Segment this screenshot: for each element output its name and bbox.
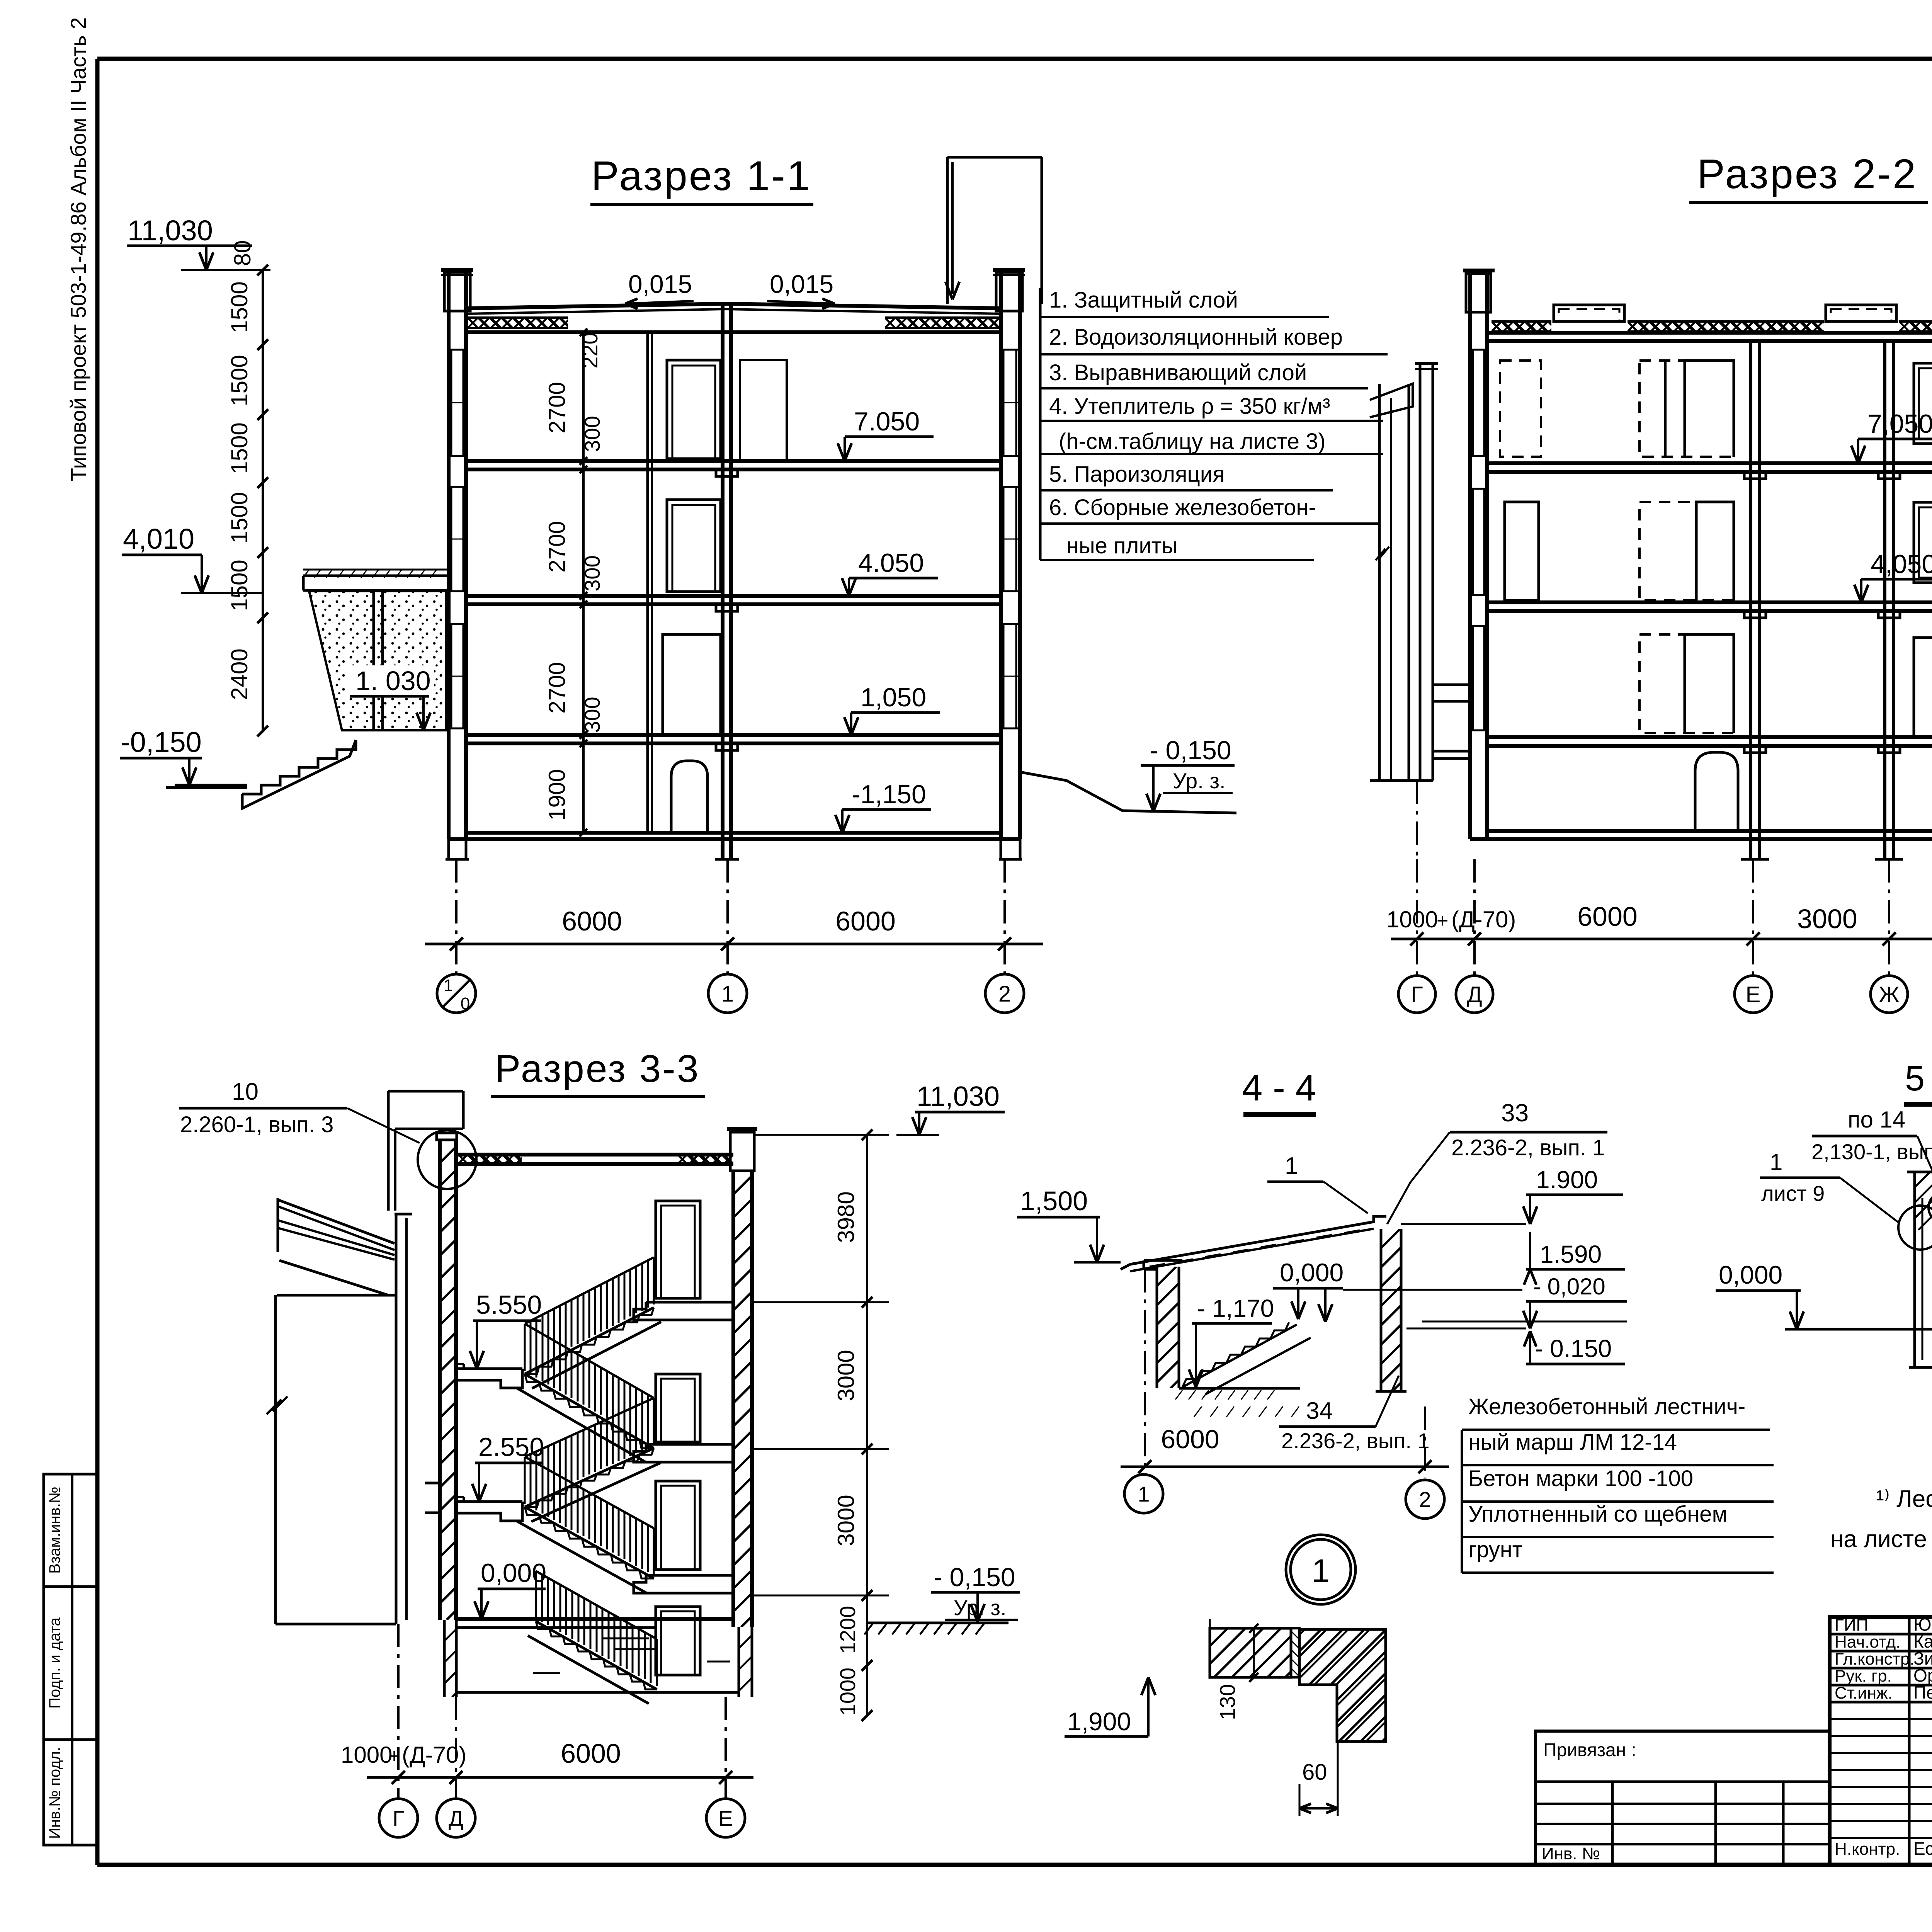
stair flight F3 upper	[525, 1308, 654, 1374]
svg-text:6. Сборные железобетон-: 6. Сборные железобетон-	[1049, 495, 1316, 520]
stair flight F2a	[525, 1448, 654, 1507]
parapet left 1-1	[444, 272, 470, 311]
building 1-1 right wall axis 2	[999, 272, 1003, 839]
sidebar table (Взам.инв.№ / Подп. и дата / Инв.№ подл.)	[44, 1474, 97, 1845]
svg-text:4,050: 4,050	[1871, 549, 1932, 579]
title block (stamp)	[1830, 1617, 1932, 1865]
svg-text:60: 60	[1302, 1760, 1327, 1785]
svg-text:-0,150: -0,150	[121, 726, 202, 758]
svg-text:300: 300	[580, 416, 604, 452]
bottom slab 1-1	[466, 831, 1001, 835]
svg-text:- 0,150: - 0,150	[1150, 736, 1231, 765]
svg-text:1: 1	[444, 976, 453, 995]
svg-text:Г: Г	[1411, 982, 1423, 1007]
svg-text:Ур. з.: Ур. з.	[1173, 769, 1226, 793]
svg-text:0,015: 0,015	[770, 270, 833, 298]
column capitals 2-2	[1744, 472, 1766, 479]
svg-text:Инв.№ подл.: Инв.№ подл.	[46, 1747, 63, 1839]
svg-text:6000: 6000	[1577, 901, 1638, 932]
building 2-2 left wall axis D	[1468, 274, 1472, 839]
svg-text:Взам.инв.№: Взам.инв.№	[46, 1486, 63, 1574]
svg-text:11,030: 11,030	[128, 214, 213, 247]
svg-text:1. 030: 1. 030	[355, 666, 431, 696]
svg-text:Есина: Есина	[1913, 1838, 1932, 1859]
lower canopy left 3-3	[425, 1482, 440, 1485]
svg-text:5 - 5: 5 - 5	[1905, 1059, 1932, 1098]
svg-text:1500: 1500	[226, 560, 252, 611]
svg-text:- 0,150: - 0,150	[934, 1563, 1015, 1592]
5-5 wall	[1913, 1172, 1916, 1367]
porch canopy slab 1-1	[303, 575, 450, 577]
svg-text:¹⁾ Лестничный марш ЛМ 12-1: ¹⁾ Лестничный марш ЛМ 12-14 учтен в спец…	[1876, 1486, 1932, 1512]
svg-text:лист 9: лист 9	[1761, 1181, 1825, 1206]
porch steps	[242, 740, 356, 794]
svg-text:1000: 1000	[341, 1742, 392, 1768]
grid bubbles 2-2	[1398, 976, 1435, 1013]
svg-text:по 14: по 14	[1848, 1107, 1905, 1133]
svg-text:1000: 1000	[1386, 906, 1438, 932]
svg-text:2: 2	[998, 981, 1011, 1007]
svg-text:3000: 3000	[833, 1350, 859, 1401]
svg-text:1,900: 1,900	[1067, 1707, 1131, 1736]
svg-text:1500: 1500	[226, 281, 252, 333]
svg-text:34: 34	[1306, 1398, 1333, 1424]
svg-text:2: 2	[1419, 1487, 1431, 1512]
roof slab 3-3	[456, 1153, 733, 1156]
ramp stair 4-4	[1182, 1322, 1289, 1387]
basement door rounded 1-1	[671, 761, 707, 833]
svg-text:Подп. и дата: Подп. и дата	[46, 1617, 63, 1708]
detail circle 10	[418, 1130, 476, 1189]
svg-text:Разрез 1-1: Разрез 1-1	[591, 152, 811, 199]
svg-text:1,050: 1,050	[861, 683, 926, 712]
grid bubbles 3-3	[379, 1799, 418, 1837]
svg-text:6000: 6000	[835, 906, 896, 936]
svg-text:1.590: 1.590	[1540, 1240, 1602, 1268]
slab stubs between G and D	[1433, 684, 1470, 686]
svg-text:1. Защитный слой: 1. Защитный слой	[1049, 287, 1238, 313]
svg-text:300: 300	[580, 697, 604, 733]
svg-text:7,050: 7,050	[1867, 409, 1932, 439]
svg-text:3000: 3000	[1797, 904, 1857, 934]
svg-text:1: 1	[721, 981, 734, 1007]
break mark annexe	[1376, 547, 1389, 560]
svg-text:4.050: 4.050	[858, 548, 924, 578]
rooftop shaft above 1-1	[946, 157, 949, 304]
parapet cap 3-3 left	[437, 1133, 457, 1140]
svg-text:ный марш ЛМ 12-14: ный марш ЛМ 12-14	[1468, 1430, 1677, 1455]
floor slabs 2-2	[1487, 461, 1932, 465]
bottom dim 3-3	[367, 1776, 753, 1779]
axis lines 2-2	[1416, 859, 1418, 976]
svg-text:300: 300	[580, 555, 604, 591]
svg-text:Разрез 3-3: Разрез 3-3	[495, 1047, 700, 1090]
svg-text:0: 0	[461, 994, 470, 1013]
ramp roof slope 4-4	[1121, 1216, 1386, 1269]
windows in outer walls 1-1	[451, 350, 452, 456]
svg-text:Е: Е	[718, 1806, 733, 1830]
svg-text:- 1,170: - 1,170	[1197, 1294, 1274, 1322]
tall door right 2-2	[1914, 638, 1932, 737]
svg-text:3. Выравнивающий слой: 3. Выравнивающий слой	[1049, 360, 1307, 385]
sheet frame border	[97, 57, 1932, 61]
column capitals 1-1	[716, 469, 738, 476]
entry canopy 3-3	[277, 1198, 279, 1252]
svg-text:2,130-1, вып. 11: 2,130-1, вып. 11	[1811, 1139, 1932, 1164]
annexe building 3-3	[274, 1295, 277, 1624]
break mark annexe 3-3	[267, 1396, 287, 1414]
svg-text:2400: 2400	[226, 648, 252, 700]
svg-text:Гл.констр.: Гл.констр.	[1835, 1650, 1915, 1668]
svg-text:Д: Д	[449, 1806, 463, 1830]
floor 0.000 3-3	[456, 1617, 733, 1621]
roof curbs 2-2	[1554, 305, 1624, 321]
svg-text:2700: 2700	[544, 382, 570, 433]
svg-text:1500: 1500	[226, 355, 252, 406]
привязан sub-table	[1536, 1731, 1830, 1865]
svg-text:(h-см.таблицу на листе 3): (h-см.таблицу на листе 3)	[1059, 429, 1326, 454]
notes list 1..6	[1039, 288, 1042, 560]
svg-text:1500: 1500	[226, 422, 252, 474]
svg-text:Н.контр.: Н.контр.	[1835, 1840, 1900, 1859]
axis lines 3-3	[397, 1624, 400, 1799]
basement water lines	[603, 1638, 649, 1639]
annexe axis G 2-2	[1378, 384, 1381, 781]
basement door rounded 2-2	[1695, 752, 1738, 831]
bottom dim line 1-1	[425, 943, 1043, 946]
right dim chain 3-3	[866, 1135, 868, 1716]
chimney 3-3	[387, 1091, 390, 1211]
svg-text:-1,150: -1,150	[852, 780, 926, 809]
svg-text:1200: 1200	[835, 1606, 860, 1654]
svg-text:1.900: 1.900	[1536, 1166, 1598, 1194]
building 1-1 left wall axis 1/0	[447, 272, 451, 839]
svg-text:4,010: 4,010	[123, 523, 194, 555]
svg-text:1000: 1000	[835, 1668, 860, 1716]
floor slabs 1-1	[466, 459, 1001, 463]
svg-text:33: 33	[1501, 1099, 1529, 1127]
axes 4-4	[1144, 1269, 1146, 1473]
svg-text:ГИП: ГИП	[1835, 1616, 1868, 1634]
svg-text:Петрова: Петрова	[1913, 1682, 1932, 1702]
5-5 floor line	[1785, 1328, 1932, 1331]
svg-text:1: 1	[1138, 1482, 1150, 1506]
porch column	[372, 590, 375, 731]
axis lines 1-1	[455, 859, 457, 974]
svg-text:2700: 2700	[544, 662, 570, 713]
svg-text:Разрез 2-2: Разрез 2-2	[1697, 150, 1917, 197]
svg-text:Типовой проект 503-1-49.86 Аль: Типовой проект 503-1-49.86 Альбом II Час…	[66, 17, 90, 481]
svg-text:+: +	[1437, 910, 1448, 932]
svg-text:ные плиты: ные плиты	[1066, 533, 1178, 558]
grid bubbles 1-1	[437, 974, 476, 1013]
doors in stairwell 3-3	[656, 1201, 700, 1298]
svg-text:Е: Е	[1746, 982, 1761, 1007]
svg-text:6000: 6000	[1161, 1425, 1219, 1454]
svg-text:0,000: 0,000	[481, 1558, 546, 1588]
svg-text:1900: 1900	[544, 769, 570, 820]
svg-text:7.050: 7.050	[854, 407, 920, 436]
svg-text:6000: 6000	[562, 906, 622, 936]
roof 1-1	[466, 304, 1001, 308]
windows in outer walls 2-2	[1472, 350, 1474, 456]
svg-text:5. Пароизоляция: 5. Пароизоляция	[1049, 462, 1225, 487]
grid bubbles 4-4	[1124, 1475, 1163, 1513]
shaft doors 1-1	[667, 360, 721, 459]
stair flight F1b	[525, 1507, 654, 1578]
svg-text:5.550: 5.550	[476, 1290, 542, 1320]
door top floor right room	[740, 360, 787, 459]
svg-text:1500: 1500	[226, 492, 252, 543]
porch mass stipple	[309, 591, 446, 730]
svg-text:Рук. гр.: Рук. гр.	[1835, 1667, 1892, 1685]
svg-text:11,030: 11,030	[917, 1081, 1000, 1112]
svg-text:1: 1	[1285, 1153, 1298, 1179]
svg-text:2.236-2, вып. 1: 2.236-2, вып. 1	[1451, 1135, 1605, 1160]
svg-text:2.260-1, вып. 3: 2.260-1, вып. 3	[180, 1112, 333, 1137]
svg-text:4. Утеплитель ρ = 350 кг/м³: 4. Утеплитель ρ = 350 кг/м³	[1049, 394, 1330, 419]
svg-text:3000: 3000	[833, 1495, 859, 1546]
svg-text:Г: Г	[393, 1806, 404, 1830]
svg-text:(Д-70): (Д-70)	[1451, 906, 1516, 932]
svg-text:80: 80	[230, 240, 255, 266]
svg-text:10: 10	[232, 1078, 259, 1105]
svg-text:0,000: 0,000	[1719, 1260, 1782, 1289]
stair flight F2b	[525, 1374, 654, 1448]
svg-text:4 - 4: 4 - 4	[1242, 1067, 1316, 1109]
svg-text:130: 130	[1215, 1684, 1240, 1720]
big detail circle 1	[1286, 1535, 1355, 1604]
bottom dim line 2-2	[1391, 938, 1932, 940]
interior columns 2-2 (E, Zh)	[1749, 341, 1752, 859]
svg-text:0,015: 0,015	[628, 270, 692, 298]
column feet 1-1	[446, 858, 469, 861]
svg-text:2.550: 2.550	[478, 1432, 544, 1462]
svg-text:0,000: 0,000	[1280, 1258, 1344, 1287]
stair shaft walls 1-1	[646, 332, 649, 833]
svg-text:Привязан :: Привязан :	[1543, 1740, 1636, 1760]
svg-text:6000: 6000	[561, 1738, 621, 1769]
svg-text:Ж: Ж	[1879, 982, 1900, 1007]
svg-text:220: 220	[578, 332, 602, 368]
interior wall x1510	[582, 332, 585, 833]
center column axis 1	[721, 304, 724, 859]
svg-text:Бетон марки 100 -100: Бетон марки 100 -100	[1468, 1466, 1693, 1491]
svg-text:1: 1	[1312, 1553, 1330, 1589]
svg-text:- 0.150: - 0.150	[1535, 1335, 1612, 1362]
svg-text:2.236-2, вып. 1: 2.236-2, вып. 1	[1281, 1429, 1430, 1453]
windows near Zh 2-2	[1914, 363, 1932, 444]
svg-text:Уплотненный со щебнем: Уплотненный со щебнем	[1468, 1502, 1727, 1527]
svg-text:Нач.отд.: Нач.отд.	[1835, 1633, 1901, 1651]
svg-text:3980: 3980	[833, 1191, 859, 1243]
basement floor 3-3	[456, 1691, 739, 1694]
stair flight F0 basement	[536, 1621, 657, 1689]
svg-text:Ст.инж.: Ст.инж.	[1835, 1684, 1893, 1702]
svg-text:Железобетонный лестнич-: Железобетонный лестнич-	[1468, 1394, 1745, 1419]
level 1.030 porch	[345, 665, 434, 697]
svg-text:1,500: 1,500	[1020, 1186, 1088, 1216]
parapet right 1-1	[996, 272, 1022, 311]
svg-text:на листе ТП: на листе ТП	[1830, 1526, 1932, 1553]
landings 3-3	[456, 1367, 522, 1370]
svg-text:Д: Д	[1467, 982, 1482, 1007]
svg-text:Инв. №: Инв. №	[1542, 1844, 1600, 1863]
svg-text:грунт: грунт	[1468, 1537, 1522, 1562]
5-5 detail circles	[1929, 1192, 1932, 1223]
interior openings 2-2	[1500, 361, 1541, 457]
ground line left porch	[175, 784, 247, 787]
gap wall right of annexe	[395, 1214, 398, 1624]
roof 2-2	[1487, 331, 1932, 335]
svg-text:1: 1	[1770, 1149, 1782, 1175]
svg-text:2. Водоизоляционный ковер: 2. Водоизоляционный ковер	[1049, 325, 1343, 350]
svg-text:2700: 2700	[544, 521, 570, 572]
right parapet 3-3	[730, 1132, 754, 1171]
ramp pit floor 4-4	[1179, 1387, 1300, 1390]
svg-text:- 0,020: - 0,020	[1533, 1274, 1605, 1299]
